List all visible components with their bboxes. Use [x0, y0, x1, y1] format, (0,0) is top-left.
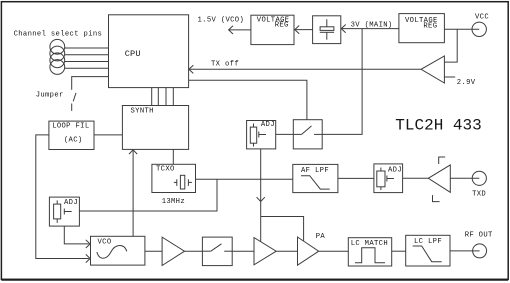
- svg-text:13MHz: 13MHz: [162, 198, 185, 206]
- wire LC MATCH to LC LPF: [392, 250, 406, 252]
- LC MATCH block: [348, 238, 391, 266]
- wire VCC to 2.9V regulator: [444, 29, 457, 62]
- wire PA to LC MATCH: [319, 250, 349, 252]
- wire LOOP FIL to VCO (feedback, node A): [36, 135, 89, 259]
- wire pin4 to CPU: [65, 67, 109, 69]
- ADJ trimmer R1 (VCO adjust): [49, 197, 79, 226]
- buffer amp A1: [162, 237, 184, 265]
- switch S1 (power control): [293, 120, 322, 149]
- wire buffer to TXD pad: [450, 177, 479, 179]
- CPU-SYNTH bus wire 4: [172, 88, 174, 106]
- ADJ trimmer R3 (deviation adjust): [374, 164, 403, 193]
- svg-text:LC LPF: LC LPF: [414, 238, 442, 246]
- crystal X1: [174, 181, 177, 183]
- wire amp to switch: [185, 250, 203, 252]
- SYNTH U2: [122, 106, 188, 150]
- RF OUT pad: [473, 244, 487, 258]
- CPU-SYNTH bus wire 3: [165, 88, 167, 106]
- svg-text:ADJ: ADJ: [388, 167, 402, 175]
- wire pin2 to CPU: [65, 54, 109, 56]
- wire CPU to switch S1 control: [189, 80, 307, 119]
- svg-text:LC MATCH: LC MATCH: [351, 240, 388, 248]
- svg-text:Channel select pins: Channel select pins: [14, 30, 103, 38]
- wire VCO to amp: [145, 250, 162, 252]
- wire ADJ R1 to TCXO line: [79, 179, 217, 211]
- voltage regulator U4 (3V): [399, 14, 445, 43]
- wire switch to driver: [232, 250, 254, 252]
- svg-text:SYNTH: SYNTH: [131, 108, 154, 116]
- bracket top: [439, 157, 446, 164]
- wire driver to PA: [276, 250, 297, 252]
- svg-text:Jumper: Jumper: [36, 91, 64, 99]
- VCO block: [91, 236, 145, 265]
- wire LOOP FIL to SYNTH: [94, 134, 122, 136]
- power adjust line down to amps (arrow down): [260, 149, 262, 217]
- svg-text:1.5V (VCO): 1.5V (VCO): [198, 17, 245, 25]
- wire cap to voltage reg (arrow): [295, 29, 313, 31]
- svg-text:2.9V: 2.9V: [457, 79, 476, 87]
- jumper J1: [72, 77, 109, 90]
- svg-text:TLC2H 433: TLC2H 433: [395, 117, 481, 135]
- wire AF LPF to ADJ R3: [338, 177, 374, 179]
- wire TCXO to AF LPF (modulation): [196, 178, 293, 180]
- bracket bottom: [433, 195, 440, 202]
- svg-text:LOOP FIL: LOOP FIL: [52, 122, 89, 130]
- TCXO block: [152, 164, 196, 192]
- 2.9V regulator U5: [421, 56, 444, 83]
- channel select pin circles: [50, 39, 65, 54]
- PA amp A3: [298, 237, 319, 265]
- svg-text:RF OUT: RF OUT: [465, 232, 493, 240]
- svg-text:AF LPF: AF LPF: [301, 167, 329, 175]
- wire LC LPF to RF OUT: [450, 250, 480, 252]
- svg-text:REG: REG: [423, 23, 437, 31]
- VCC pad: [472, 22, 486, 36]
- LOOP FIL block: [49, 121, 94, 149]
- svg-text:ADJ: ADJ: [64, 199, 78, 207]
- TXD pad: [472, 171, 486, 185]
- wire ADJ R1 to VCO (arrow): [64, 226, 89, 244]
- TXD input buffer A4: [428, 165, 450, 192]
- svg-text:TXD: TXD: [472, 191, 486, 199]
- driver amp A2: [254, 238, 276, 265]
- svg-text:VCC: VCC: [475, 13, 489, 21]
- CPU U1: [109, 15, 189, 88]
- ADJ trimmer R2 (power adjust): [247, 121, 276, 149]
- svg-text:TCXO: TCXO: [156, 166, 175, 174]
- wire pin1 to CPU: [65, 47, 109, 49]
- LC LPF block: [406, 235, 450, 266]
- svg-text:PA: PA: [316, 233, 326, 241]
- wire SYNTH to TCXO: [172, 149, 174, 164]
- switch S2 (RF path): [202, 237, 232, 266]
- AF LPF block: [293, 164, 338, 192]
- svg-text:(AC): (AC): [64, 136, 83, 144]
- wire VCO to SYNTH (arrow up): [132, 150, 134, 236]
- wire ADJ R3 to buffer: [403, 177, 429, 179]
- CPU-SYNTH bus wire 2: [157, 88, 159, 106]
- wire ADJ R2 to switch S1: [276, 133, 294, 135]
- voltage regulator U3 (1.5V): [251, 15, 294, 44]
- svg-text:ADJ: ADJ: [261, 121, 275, 129]
- wire VCC to regulator: [444, 28, 479, 30]
- 2.9V stub: [444, 76, 455, 78]
- decoupling capacitor C1: [313, 16, 341, 44]
- wire pin3 to CPU: [65, 61, 109, 63]
- svg-text:TX off: TX off: [211, 61, 239, 69]
- svg-text:REG: REG: [275, 22, 289, 30]
- svg-text:CPU: CPU: [125, 49, 141, 59]
- wire switch S1 to 3V main: [322, 29, 362, 135]
- svg-text:VCO: VCO: [98, 239, 112, 247]
- CPU-SYNTH bus wire 1: [151, 88, 153, 106]
